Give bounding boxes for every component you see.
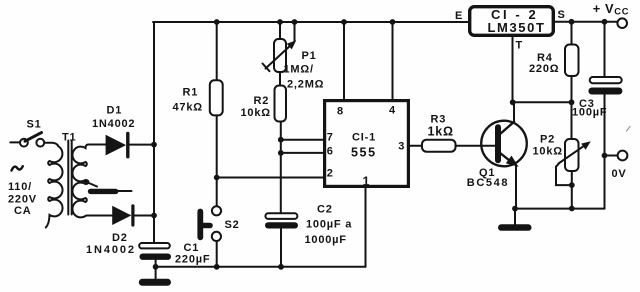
- svg-text:8: 8: [337, 105, 344, 117]
- svg-text:220V: 220V: [8, 193, 37, 205]
- wire bottom right rail: [515, 208, 605, 210]
- svg-text:+ V: + V: [593, 1, 614, 16]
- svg-text:110/: 110/: [8, 181, 32, 193]
- svg-text:6: 6: [327, 145, 334, 157]
- node C1 bottom junction: [153, 264, 159, 270]
- switch S2 pushbutton: [200, 178, 221, 267]
- svg-text:2,2MΩ: 2,2MΩ: [287, 79, 324, 91]
- svg-text:1000µF: 1000µF: [305, 234, 347, 246]
- node S2 bottom rail junction: [214, 264, 220, 270]
- node R2 / pin7 junction: [278, 137, 284, 143]
- svg-text:555: 555: [351, 146, 377, 160]
- wire bottom left rail: [156, 266, 366, 268]
- svg-text:C2: C2: [317, 203, 333, 215]
- svg-text:1kΩ: 1kΩ: [428, 124, 454, 138]
- regulator CI-2 LM350T box: [470, 7, 554, 36]
- svg-text:T1: T1: [62, 132, 76, 144]
- svg-text:CA: CA: [14, 205, 32, 217]
- wire CI-2 T pin: [512, 37, 514, 102]
- wire T pin to R4 bottom: [513, 101, 572, 103]
- resistor R4: [565, 22, 579, 103]
- terminal +Vcc: [617, 18, 627, 28]
- capacitor C3: [588, 22, 622, 209]
- wire CI-2 S output: [555, 21, 617, 23]
- node P2 bottom rail junction: [569, 206, 575, 212]
- resistor R2: [275, 72, 287, 213]
- node diode D1 cathode junction: [151, 142, 157, 148]
- transformer T1 secondary winding: [72, 145, 112, 218]
- svg-text:2: 2: [327, 168, 334, 180]
- svg-text:1N4002: 1N4002: [92, 118, 135, 130]
- transformer T1 core: [68, 141, 71, 215]
- svg-text:C1: C1: [184, 242, 200, 254]
- terminal 0V: [605, 151, 628, 161]
- node 0V junction: [602, 153, 608, 159]
- svg-text:3: 3: [398, 141, 405, 153]
- svg-text:LM350T: LM350T: [488, 20, 546, 35]
- svg-text:T: T: [516, 40, 524, 52]
- resistor R3: [422, 140, 495, 152]
- label AC source ~: [12, 166, 23, 170]
- node pin8 rail junction: [341, 19, 347, 25]
- svg-text:S: S: [558, 9, 566, 21]
- svg-text:R2: R2: [254, 95, 270, 107]
- node T/collector junction: [510, 99, 516, 105]
- wire Q1 emitter: [515, 166, 517, 209]
- node emitter rail junction: [512, 206, 518, 212]
- ground (Q1 emitter): [498, 209, 532, 231]
- svg-text:S1: S1: [27, 119, 42, 131]
- svg-text:D2: D2: [112, 232, 128, 244]
- node P2 wiper junction: [569, 182, 575, 188]
- wire pin 1: [365, 188, 367, 267]
- svg-text:220µF: 220µF: [175, 254, 210, 266]
- node P1 top rail junction: [277, 19, 283, 25]
- svg-text:10kΩ: 10kΩ: [533, 145, 563, 157]
- diode D2: [112, 206, 154, 225]
- svg-text:S2: S2: [225, 219, 240, 231]
- svg-text:CC: CC: [614, 6, 629, 16]
- wire pin 2: [217, 177, 323, 179]
- svg-text:1: 1: [363, 175, 370, 189]
- node R2 / pin6 junction: [278, 150, 284, 156]
- node C2 bottom rail junction: [278, 264, 284, 270]
- node P1 wiper rail junction: [292, 19, 298, 25]
- svg-text:E: E: [455, 10, 463, 22]
- svg-text:1N4002: 1N4002: [86, 244, 136, 256]
- svg-text:D1: D1: [107, 104, 123, 116]
- wire left bus vertical: [153, 22, 155, 242]
- potentiometer P2: [556, 102, 591, 208]
- transistor Q1: [481, 121, 527, 167]
- svg-text:220Ω: 220Ω: [529, 63, 559, 75]
- svg-text:0V: 0V: [612, 168, 627, 180]
- svg-text:1MΩ/: 1MΩ/: [284, 64, 314, 76]
- wire pin 4: [392, 22, 394, 99]
- svg-text:10kΩ: 10kΩ: [241, 107, 271, 119]
- node R1 top rail junction: [214, 19, 220, 25]
- op-amp timer CI-1 555 box: [325, 101, 409, 187]
- wire pin 6: [281, 152, 323, 154]
- node R1 / pin2 junction: [214, 175, 220, 181]
- svg-text:47kΩ: 47kΩ: [173, 102, 203, 114]
- potentiometer P1: [263, 22, 297, 72]
- wire pin 8: [343, 22, 345, 99]
- resistor R1: [210, 22, 223, 178]
- node R4 top junction: [569, 19, 575, 25]
- svg-text:P2: P2: [540, 134, 555, 146]
- diode D1: [106, 134, 154, 157]
- wire pin 3: [410, 145, 422, 147]
- ground (C1): [139, 267, 171, 286]
- svg-text:100µF a: 100µF a: [306, 219, 352, 231]
- svg-text:P1: P1: [302, 50, 317, 62]
- node pin4 rail junction: [390, 19, 396, 25]
- svg-text:BC548: BC548: [467, 177, 509, 189]
- svg-text:R1: R1: [183, 86, 199, 98]
- node R4 bottom junction: [569, 99, 575, 105]
- node diode D2 cathode junction: [151, 213, 157, 219]
- capacitor C2: [265, 213, 298, 266]
- svg-text:CI-1: CI-1: [352, 131, 376, 143]
- svg-text:4: 4: [389, 104, 396, 116]
- svg-text:100µF: 100µF: [572, 106, 607, 118]
- capacitor C1: [139, 243, 171, 267]
- wire Q1 collector: [513, 102, 515, 122]
- node C3 top junction: [602, 19, 608, 25]
- svg-text:7: 7: [327, 131, 334, 143]
- transformer center tap: [84, 179, 132, 191]
- wire top rail: [153, 21, 468, 23]
- wire pin 7: [281, 139, 323, 141]
- transformer T1 primary winding: [44, 143, 62, 228]
- switch S1: [10, 133, 44, 147]
- scan speck: [627, 127, 631, 132]
